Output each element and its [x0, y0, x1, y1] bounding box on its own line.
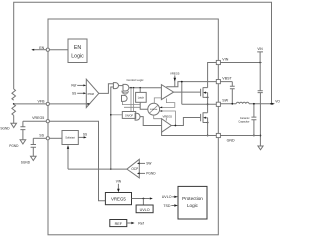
wire SW rail	[182, 103, 217, 105]
wire SW external	[220, 103, 236, 105]
ground SGND (soft-start cap)	[31, 156, 37, 160]
inductor L1	[236, 102, 249, 104]
wire SS pin to cap	[33, 137, 46, 139]
wire Q2 drain to SW	[207, 104, 209, 112]
svg-text:UVLO: UVLO	[140, 208, 150, 212]
svg-text:Control Logic: Control Logic	[126, 78, 144, 82]
transistor Q1 high-side	[174, 87, 208, 97]
wire cross-couple arcs	[121, 91, 128, 93]
gate A	[113, 83, 118, 89]
svg-text:SS: SS	[83, 132, 87, 136]
wire latch to osc	[140, 102, 148, 109]
svg-text:EN: EN	[74, 45, 81, 51]
svg-text:PGND: PGND	[146, 172, 156, 176]
svg-text:VIN: VIN	[116, 180, 122, 184]
wire osc right hook	[160, 98, 175, 107]
box Protection Logic	[178, 186, 207, 219]
wire OCP feedback riser	[111, 87, 114, 169]
capacitor C-IN	[258, 63, 263, 93]
gate D	[122, 95, 128, 101]
wire SS reference output	[78, 136, 84, 138]
wire softstart reset input	[67, 149, 69, 169]
wire VIN external	[220, 62, 261, 64]
pin VREG5	[46, 120, 49, 123]
svg-text:PWM: PWM	[88, 92, 94, 96]
node PGND sense	[139, 172, 145, 174]
svg-text:VIN: VIN	[222, 58, 228, 62]
pin EN	[32, 49, 46, 51]
driver high-side	[161, 85, 173, 100]
pin SS	[46, 137, 49, 140]
wire VIN to Q1 drain	[208, 63, 217, 88]
capacitor C-VREG5	[20, 121, 25, 140]
svg-text:Ref: Ref	[138, 221, 144, 225]
svg-text:UVLO: UVLO	[162, 195, 172, 199]
svg-text:Logic: Logic	[187, 203, 199, 208]
svg-text:VFB: VFB	[38, 99, 46, 103]
svg-text:SGND: SGND	[0, 127, 10, 131]
svg-text:Ref: Ref	[71, 84, 76, 88]
wire output	[249, 103, 272, 105]
wire gate bus to driver	[129, 87, 162, 89]
wire osc to low driver output	[160, 111, 176, 126]
svg-text:PGND: PGND	[9, 144, 19, 148]
svg-text:REF: REF	[115, 222, 123, 226]
wire osc bottom to low driver	[154, 115, 162, 119]
svg-text:Ceramic: Ceramic	[240, 116, 250, 120]
box one-shot	[122, 112, 135, 119]
pin SW	[216, 102, 220, 106]
box VREG5 regulator	[105, 193, 131, 205]
svg-text:VREG5: VREG5	[32, 116, 44, 120]
svg-text:GND: GND	[227, 138, 235, 142]
gate E	[135, 113, 140, 120]
svg-text:Protection: Protection	[182, 196, 203, 201]
wire Q1 source to SW	[207, 93, 209, 105]
wire gate E to low driver	[140, 117, 162, 126]
wire Ref output	[127, 222, 132, 224]
svg-text:Logic: Logic	[71, 54, 84, 60]
latch box	[139, 88, 141, 93]
box EN Logic U-EN	[50, 49, 69, 51]
svg-text:SS: SS	[39, 134, 44, 138]
svg-text:VO: VO	[275, 100, 280, 104]
box UVLO	[136, 205, 153, 213]
op-amp PWM comparator	[86, 79, 99, 107]
wire GND external	[220, 135, 260, 137]
capacitor C-BST bootstrap	[220, 82, 234, 104]
wire VREG5 regulator output	[132, 198, 150, 200]
pin VBST	[216, 80, 220, 84]
ground PGND	[20, 140, 26, 144]
pin GND	[216, 133, 220, 137]
wire osc top to driver	[154, 98, 161, 103]
node SW sense	[139, 162, 145, 164]
wire Q2 source to GND	[207, 118, 209, 136]
svg-text:TSD: TSD	[163, 204, 171, 208]
svg-text:VREG5: VREG5	[111, 196, 126, 201]
wire PWM output to control logic	[99, 84, 114, 94]
resistor R2	[12, 104, 16, 123]
svg-text:Latch: Latch	[138, 96, 145, 100]
svg-text:OCP: OCP	[131, 167, 138, 171]
oscillator circle	[148, 103, 160, 115]
ground SGND (divider)	[11, 123, 17, 127]
svg-text:VREG5: VREG5	[162, 114, 172, 118]
transistor Q2 low-side	[201, 112, 208, 122]
gate B	[123, 84, 129, 91]
svg-text:SW: SW	[146, 162, 151, 166]
svg-text:ON/OF: ON/OF	[125, 113, 134, 117]
resistor R1	[12, 89, 16, 100]
wire OCP output	[68, 168, 127, 170]
node bus junctions	[130, 87, 132, 89]
wire bus risers to one-shot	[131, 88, 134, 112]
driver low-side	[162, 119, 172, 133]
wire VREG5 pin to bypass cap	[23, 120, 46, 122]
box REF	[110, 220, 127, 227]
ground output	[258, 146, 263, 150]
wire gate A to gate B	[119, 85, 124, 87]
wire VREG5 to VBST	[166, 82, 216, 87]
node FB divider tap	[13, 103, 15, 105]
wire VO feedback loop (top and left and right)	[14, 2, 272, 104]
svg-text:VREG5: VREG5	[170, 72, 180, 76]
svg-text:SW: SW	[222, 98, 228, 102]
svg-text:Capacitor: Capacitor	[238, 120, 249, 124]
wire divider tap to VFB pin	[14, 103, 46, 105]
svg-text:Softstart: Softstart	[65, 136, 75, 140]
svg-text:SS: SS	[72, 92, 76, 96]
pin VIN	[216, 60, 220, 64]
wire gate D loop	[122, 101, 140, 104]
wire VBST to SW (driver return)	[181, 82, 183, 105]
wire GND rail	[162, 132, 217, 135]
op-amp OCP comparator	[127, 159, 139, 178]
capacitor C-OUT	[251, 104, 256, 136]
IC boundary box	[48, 19, 218, 235]
wire low driver output to gate	[171, 118, 200, 126]
wire one-shot input	[111, 114, 123, 116]
box Softstart	[50, 137, 63, 139]
svg-text:600kHz: 600kHz	[150, 109, 157, 111]
pin VFB	[46, 102, 49, 105]
wire VFB to PWM comparator	[50, 103, 89, 105]
svg-text:SGND: SGND	[21, 161, 31, 165]
svg-text:VIN: VIN	[257, 47, 263, 51]
wire ground rail right	[259, 93, 261, 146]
wire VREG5 rail to regulator	[50, 121, 106, 201]
svg-text:EN: EN	[39, 46, 44, 50]
svg-text:VBST: VBST	[222, 76, 232, 80]
capacitor C-SS	[31, 138, 36, 156]
